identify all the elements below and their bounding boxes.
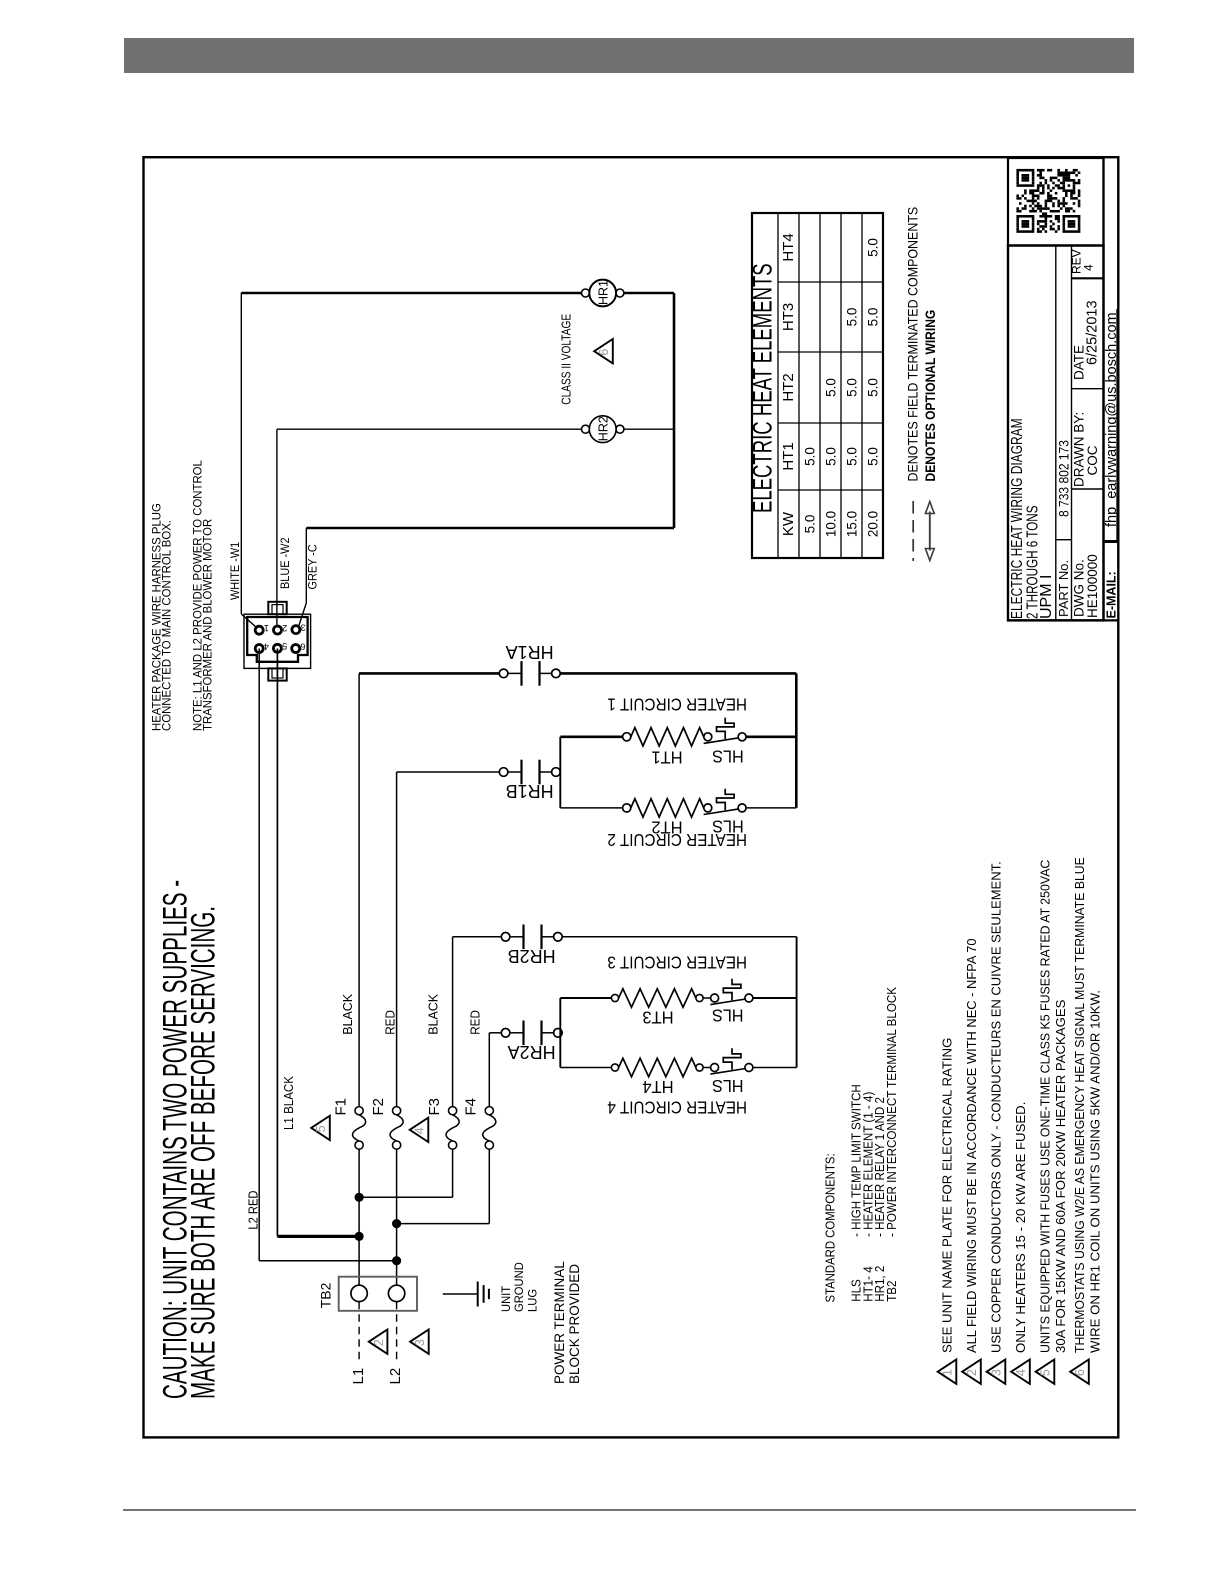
- svg-text:L1: L1: [350, 1368, 367, 1385]
- svg-text:1: 1: [264, 623, 269, 633]
- svg-text:3: 3: [413, 1339, 427, 1346]
- svg-text:5: 5: [282, 641, 287, 651]
- svg-text:USE COPPER CONDUCTORS ONLY - C: USE COPPER CONDUCTORS ONLY - CONDUCTEURS…: [989, 861, 1004, 1353]
- svg-text:4: 4: [413, 1127, 427, 1134]
- svg-text:5.0: 5.0: [845, 378, 860, 397]
- svg-text:KW: KW: [780, 511, 797, 536]
- svg-text:2: 2: [282, 623, 287, 633]
- svg-text:BLACK: BLACK: [340, 993, 355, 1034]
- svg-text:MAKE SURE BOTH ARE OFF BEFORE: MAKE SURE BOTH ARE OFF BEFORE SERVICING.: [184, 906, 221, 1399]
- svg-text:HT4: HT4: [780, 233, 797, 261]
- svg-text:BLUE -W2: BLUE -W2: [279, 537, 292, 589]
- svg-text:BLACK: BLACK: [425, 993, 440, 1034]
- svg-text:10.0: 10.0: [824, 511, 839, 537]
- svg-text:HEATER CIRCUIT 3: HEATER CIRCUIT 3: [607, 952, 747, 972]
- svg-text:HEATER CIRCUIT 4: HEATER CIRCUIT 4: [607, 1097, 747, 1117]
- svg-text:POWER TERMINAL: POWER TERMINAL: [552, 1261, 567, 1384]
- svg-text:5: 5: [314, 1125, 328, 1132]
- svg-text:6: 6: [597, 349, 611, 356]
- svg-text:BLOCK PROVIDED: BLOCK PROVIDED: [567, 1264, 582, 1384]
- svg-text:4: 4: [264, 641, 269, 651]
- svg-text:RED: RED: [383, 1010, 398, 1035]
- svg-text:UNITS EQUIPPED WITH FUSES USE: UNITS EQUIPPED WITH FUSES USE ONE-TIME C…: [1037, 860, 1052, 1353]
- svg-text:L1 BLACK: L1 BLACK: [282, 1075, 297, 1130]
- svg-text:HLS: HLS: [712, 1005, 744, 1025]
- svg-text:HT4: HT4: [642, 1077, 674, 1098]
- svg-text:TB2: TB2: [318, 1282, 334, 1308]
- svg-text:4: 4: [1014, 1369, 1028, 1376]
- svg-text:HR1B: HR1B: [506, 781, 554, 801]
- svg-text:ALL FIELD WIRING MUST BE IN AC: ALL FIELD WIRING MUST BE IN ACCORDANCE W…: [964, 938, 979, 1353]
- svg-text:HR1: HR1: [597, 280, 611, 305]
- svg-text:TRANSFORMER AND BLOWER MOTOR: TRANSFORMER AND BLOWER MOTOR: [203, 519, 215, 731]
- svg-text:HT2: HT2: [780, 373, 797, 401]
- svg-text:5.0: 5.0: [803, 515, 818, 534]
- svg-text:5.0: 5.0: [845, 447, 860, 466]
- svg-text:5.0: 5.0: [803, 447, 818, 466]
- svg-text:- POWER INTERCONNECT TERMINAL: - POWER INTERCONNECT TERMINAL BLOCK: [884, 986, 899, 1237]
- svg-text:COC: COC: [1085, 445, 1100, 475]
- svg-text:HEATER CIRCUIT 1: HEATER CIRCUIT 1: [607, 694, 747, 714]
- svg-text:HR2: HR2: [597, 416, 611, 441]
- svg-text:5: 5: [1039, 1369, 1053, 1376]
- svg-text:5.0: 5.0: [845, 308, 860, 327]
- svg-text:F4: F4: [463, 1098, 480, 1116]
- svg-text:HT3: HT3: [642, 1007, 673, 1028]
- svg-text:LUG: LUG: [527, 1289, 539, 1312]
- svg-text:F1: F1: [333, 1098, 350, 1116]
- svg-text:6: 6: [300, 641, 305, 651]
- svg-text:HLS: HLS: [712, 1076, 744, 1096]
- svg-text:HLS: HLS: [712, 746, 744, 766]
- svg-text:UNIT: UNIT: [501, 1286, 513, 1312]
- svg-text:ONLY HEATERS 15 - 20 KW ARE FU: ONLY HEATERS 15 - 20 KW ARE FUSED.: [1013, 1102, 1028, 1353]
- svg-text:15.0: 15.0: [845, 511, 860, 537]
- svg-text:THERMOSTATS USING W2/E AS EMER: THERMOSTATS USING W2/E AS EMERGENCY HEAT…: [1072, 857, 1088, 1353]
- svg-text:6: 6: [1073, 1369, 1087, 1376]
- svg-text:5.0: 5.0: [866, 308, 881, 327]
- svg-text:L2: L2: [387, 1368, 404, 1385]
- svg-text:5.0: 5.0: [824, 378, 839, 397]
- svg-text:DENOTES FIELD TERMINATED COMPO: DENOTES FIELD TERMINATED COMPONENTS: [905, 206, 921, 481]
- svg-text:UPM I: UPM I: [1038, 575, 1055, 619]
- svg-text:F3: F3: [426, 1098, 443, 1116]
- svg-text:1: 1: [941, 1369, 955, 1376]
- svg-text:ELECTRIC HEAT ELEMENTS: ELECTRIC HEAT ELEMENTS: [747, 263, 777, 513]
- svg-text:DENOTES OPTIONAL WIRING: DENOTES OPTIONAL WIRING: [922, 310, 938, 482]
- svg-text:3: 3: [990, 1369, 1004, 1376]
- svg-text:HR2B: HR2B: [508, 946, 556, 966]
- svg-text:PART No.: PART No.: [1056, 560, 1071, 617]
- svg-text:CLASS II VOLTAGE: CLASS II VOLTAGE: [559, 314, 573, 405]
- svg-text:WIRE ON HR1 COIL ON UNITS USIN: WIRE ON HR1 COIL ON UNITS USING 5KW AND/…: [1088, 990, 1103, 1353]
- svg-text:5.0: 5.0: [824, 447, 839, 466]
- svg-text:8 733 802 173: 8 733 802 173: [1056, 440, 1072, 517]
- svg-text:3: 3: [301, 622, 306, 632]
- svg-text:HT1: HT1: [651, 747, 682, 768]
- svg-text:6/25/2013: 6/25/2013: [1085, 300, 1101, 365]
- svg-text:HR1A: HR1A: [506, 642, 554, 662]
- svg-text:F2: F2: [370, 1098, 387, 1116]
- svg-text:SEE UNIT NAME PLATE FOR ELECT: SEE UNIT NAME PLATE FOR ELECTRICAL RATIN…: [940, 1038, 955, 1353]
- svg-text:5.0: 5.0: [866, 238, 881, 257]
- svg-text:fhp_earlywarning@us.bosch.com: fhp_earlywarning@us.bosch.com: [1104, 312, 1120, 527]
- svg-text:GREY -C: GREY -C: [307, 544, 320, 589]
- svg-text:E-MAIL:: E-MAIL:: [1105, 571, 1119, 618]
- svg-text:HEATER CIRCUIT 2: HEATER CIRCUIT 2: [607, 830, 747, 850]
- svg-text:HR2A: HR2A: [508, 1042, 556, 1062]
- svg-text:STANDARD COMPONENTS:: STANDARD COMPONENTS:: [823, 1153, 838, 1302]
- svg-text:20.0: 20.0: [866, 511, 881, 537]
- svg-text:HT3: HT3: [780, 303, 797, 331]
- svg-text:5.0: 5.0: [866, 447, 881, 466]
- svg-text:L2 RED: L2 RED: [246, 1190, 261, 1229]
- svg-text:TB2: TB2: [884, 1280, 899, 1301]
- svg-text:GROUND: GROUND: [514, 1262, 526, 1312]
- svg-text:WHITE -W1: WHITE -W1: [230, 542, 243, 600]
- svg-text:CONNECTED TO MAIN CONTROL BOX.: CONNECTED TO MAIN CONTROL BOX.: [162, 520, 174, 731]
- svg-text:2: 2: [372, 1339, 386, 1346]
- svg-text:2: 2: [965, 1369, 979, 1376]
- svg-text:5.0: 5.0: [866, 378, 881, 397]
- svg-text:4: 4: [1082, 264, 1096, 271]
- svg-text:HT1: HT1: [780, 442, 797, 470]
- svg-text:30A FOR 15KW AND 60A FOR 20KW: 30A FOR 15KW AND 60A FOR 20KW HEATER PAC…: [1053, 999, 1068, 1353]
- svg-text:RED: RED: [468, 1010, 483, 1035]
- svg-text:HE100000: HE100000: [1085, 554, 1100, 618]
